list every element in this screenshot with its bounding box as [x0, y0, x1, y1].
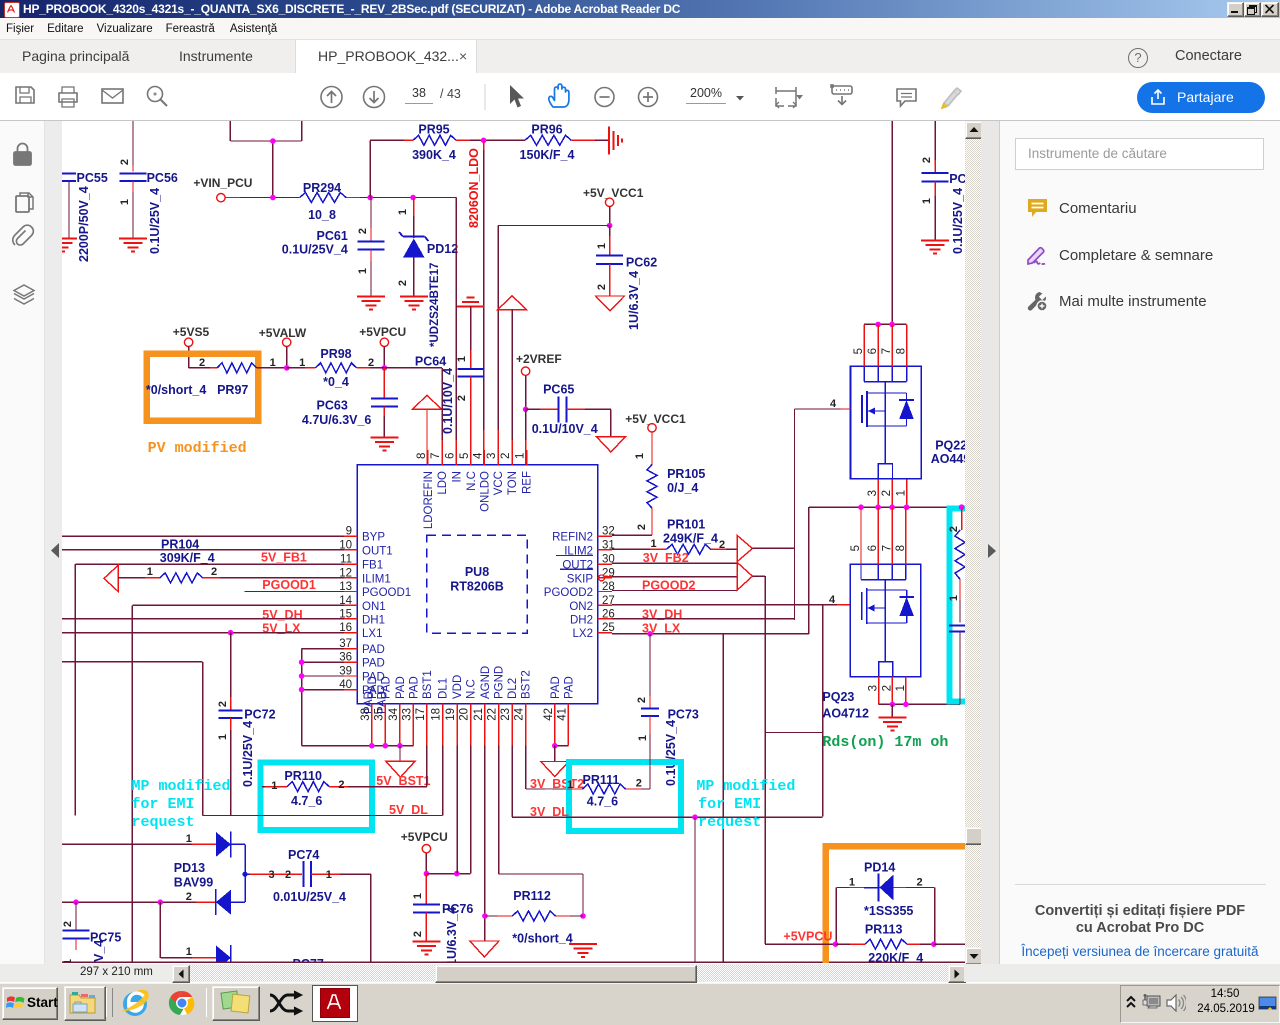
svg-text:3: 3 [868, 685, 880, 691]
wire gate link row [765, 732, 823, 734]
svg-text:1U/6.3V_4: 1U/6.3V_4 [445, 907, 459, 963]
svg-text:1: 1 [217, 734, 229, 740]
svg-text:PAD: PAD [408, 676, 420, 699]
svg-text:150K/F_4: 150K/F_4 [520, 148, 575, 162]
wire DH2 pin26 [612, 618, 795, 620]
svg-text:23: 23 [500, 708, 512, 721]
svg-text:ON2: ON2 [569, 601, 593, 613]
email icon [102, 89, 123, 103]
resistor PR101 [612, 518, 737, 555]
net label 3V_BST2 [530, 777, 584, 791]
svg-text:+2VREF: +2VREF [516, 352, 562, 366]
labels PD13 BAV99 [174, 861, 213, 890]
capacitor in right bracket [949, 626, 965, 705]
net label 5V_LX [262, 622, 301, 636]
svg-text:PAD: PAD [550, 676, 562, 699]
ground (PQ23 source) [878, 704, 906, 730]
svg-text:PC63: PC63 [317, 399, 348, 413]
svg-text:1: 1 [515, 453, 527, 459]
PQ22 bottom pin stubs [878, 479, 907, 507]
svg-text:2: 2 [119, 159, 131, 165]
svg-text:1: 1 [119, 199, 131, 205]
svg-text:1: 1 [637, 735, 649, 741]
svg-text:1: 1 [147, 566, 153, 578]
power +5VALW [259, 326, 307, 371]
svg-text:0.1U/25V_4: 0.1U/25V_4 [282, 243, 348, 257]
resistor PR111 [567, 734, 650, 809]
svg-text:2: 2 [211, 566, 217, 578]
svg-text:+5VPCU: +5VPCU [401, 830, 448, 844]
svg-text:+5VS5: +5VS5 [173, 325, 210, 339]
wire 3V_DL row [512, 746, 823, 963]
ground arrow (PC65) [596, 437, 625, 452]
svg-text:PAD: PAD [395, 676, 407, 699]
power arrow pin 8 [413, 395, 442, 465]
svg-text:10_8: 10_8 [308, 208, 336, 222]
ground (PC55) [49, 239, 77, 252]
diode PD13-A [216, 831, 248, 902]
taskbar [0, 983, 1280, 1025]
svg-text:AGND: AGND [480, 666, 492, 699]
Comentariu row [1027, 198, 1048, 219]
net label 3V_DH [642, 608, 682, 622]
page up icon [321, 87, 342, 108]
svg-text:PR101: PR101 [667, 518, 705, 532]
svg-text:6: 6 [867, 348, 879, 354]
svg-text:request: request [698, 814, 761, 831]
wire pins 42 41 jog [552, 743, 568, 762]
PU8 right pin names [544, 532, 594, 641]
svg-text:35: 35 [373, 708, 385, 721]
svg-text:PD13: PD13 [174, 861, 205, 875]
resistor PR95 [370, 123, 456, 198]
svg-text:FB1: FB1 [362, 560, 383, 572]
transistor PQ22 AO4494 [851, 366, 971, 478]
ground (PD12) [400, 297, 428, 310]
wire VCC net [498, 226, 609, 466]
net arrow PR104 [104, 565, 118, 591]
capacitor PC56 [119, 121, 178, 254]
resistor PR112 [485, 889, 583, 946]
svg-text:PR97: PR97 [217, 383, 248, 397]
status bar + horizontal scrollbar [0, 964, 1280, 982]
svg-text:249K/F_4: 249K/F_4 [663, 532, 718, 546]
vertical scrollbar [965, 121, 981, 964]
svg-text:2: 2 [397, 280, 409, 286]
capacitor PC55 [62, 171, 108, 262]
wire BYP pin9 [62, 535, 344, 537]
title bar [0, 0, 1280, 18]
svg-text:2: 2 [357, 228, 369, 234]
svg-text:+VIN_PCU: +VIN_PCU [193, 176, 252, 190]
svg-text:PC55: PC55 [77, 171, 108, 185]
svg-text:42: 42 [543, 708, 555, 721]
annotation box PV modified [147, 354, 259, 421]
annotation box EMI request 2 [569, 762, 681, 831]
svg-text:PR111: PR111 [583, 773, 620, 787]
capacitor PC63 [302, 368, 398, 437]
ground arrow (AGND) [470, 941, 499, 957]
svg-text:BST2: BST2 [521, 670, 533, 699]
svg-text:0.1U/10V_4: 0.1U/10V_4 [441, 368, 455, 434]
svg-text:2: 2 [62, 921, 74, 927]
svg-text:2200P/50V_4: 2200P/50V_4 [77, 186, 91, 262]
svg-text:0.01U/25V_4: 0.01U/25V_4 [273, 890, 346, 904]
PQ23 top pin numbers [850, 545, 907, 551]
svg-text:PD14: PD14 [864, 861, 895, 875]
svg-text:+5V_VCC1: +5V_VCC1 [583, 186, 644, 200]
net PGOOD2 [612, 579, 737, 593]
svg-text:0.1U/25V_4: 0.1U/25V_4 [664, 720, 678, 786]
capacitor PC75 [62, 902, 121, 965]
PQ22 top bus [864, 322, 906, 328]
net label 5V_DL [389, 803, 428, 817]
svg-text:21: 21 [473, 708, 485, 721]
svg-text:PAD: PAD [362, 658, 385, 670]
svg-text:3: 3 [269, 869, 275, 881]
svg-text:BAV99: BAV99 [174, 876, 213, 890]
annotation box right bracket [950, 508, 976, 701]
svg-text:PC74: PC74 [288, 848, 319, 862]
svg-text:2: 2 [636, 697, 648, 703]
capacitor PC76 [412, 874, 473, 966]
Partajare button [1137, 82, 1265, 113]
svg-text:8206ON_LDO: 8206ON_LDO [467, 148, 481, 228]
svg-text:PQ22: PQ22 [935, 439, 965, 453]
svg-text:BYP: BYP [362, 532, 385, 544]
resistor PR110 [262, 746, 427, 808]
svg-text:V_4: V_4 [92, 940, 106, 962]
net label 3V_DL [530, 805, 569, 819]
svg-text:17: 17 [415, 708, 427, 721]
wire top staple [230, 121, 301, 198]
PU8 bottom pin numbers [360, 707, 569, 720]
svg-text:PAD: PAD [563, 676, 575, 699]
svg-text:request: request [132, 814, 195, 831]
wire triangle1 apex to PQ22 gate column [752, 409, 794, 620]
select cursor [510, 85, 524, 108]
capacitor PC61 [282, 198, 385, 297]
svg-text:38: 38 [360, 708, 372, 721]
svg-text:1: 1 [921, 198, 933, 204]
svg-text:PU8: PU8 [465, 565, 489, 579]
svg-text:8: 8 [416, 453, 428, 459]
svg-text:PAD: PAD [380, 676, 392, 699]
search icon [148, 87, 168, 107]
IC PU8 RT8206B body [357, 465, 597, 704]
svg-text:*0/short_4: *0/short_4 [512, 932, 572, 946]
svg-text:34: 34 [388, 707, 400, 720]
wire left net y662 [62, 662, 203, 816]
svg-text:N.C: N.C [466, 679, 478, 699]
svg-text:4.7_6: 4.7_6 [291, 794, 322, 808]
svg-text:1U/6.3V_4: 1U/6.3V_4 [627, 271, 641, 330]
svg-text:3: 3 [867, 490, 879, 496]
start button [2, 987, 58, 1020]
svg-text:PC73: PC73 [668, 708, 699, 722]
svg-text:5: 5 [850, 545, 862, 551]
svg-text:2: 2 [338, 779, 344, 791]
junction node PR95/PC61 [367, 195, 416, 201]
svg-text:PR112: PR112 [513, 889, 551, 903]
separator [484, 84, 486, 110]
diode PD14 [836, 861, 934, 945]
net label 5V_DH [262, 608, 302, 622]
wire AGND pin21 [482, 746, 488, 941]
wire 5V_DL [203, 746, 443, 816]
svg-text:PR95: PR95 [418, 123, 449, 137]
svg-text:1: 1 [357, 268, 369, 274]
svg-text:41: 41 [556, 708, 568, 721]
svg-text:Rds(on) 17m oh: Rds(on) 17m oh [822, 734, 948, 751]
wire OUT2 pin30 [612, 562, 737, 564]
svg-text:8: 8 [896, 348, 908, 354]
svg-text:*UDZS24BTE17: *UDZS24BTE17 [429, 263, 441, 347]
svg-text:PC72: PC72 [244, 708, 275, 722]
wire PQ23 aux column [722, 634, 724, 963]
ground (PR96, rotated) [609, 126, 622, 154]
svg-text:*0_4: *0_4 [323, 375, 349, 389]
net label 3V_FB2 [643, 551, 689, 565]
capacitor PC64 [441, 298, 484, 466]
svg-text:PD12: PD12 [427, 242, 458, 256]
svg-text:REFIN2: REFIN2 [552, 532, 593, 544]
resistor PR105 [620, 465, 705, 536]
wire diode row 3 [160, 902, 216, 958]
svg-text:19: 19 [445, 708, 457, 721]
svg-text:+5V_VCC1: +5V_VCC1 [625, 412, 686, 426]
Mai multe instrumente row [1026, 290, 1049, 312]
svg-text:5: 5 [853, 348, 865, 354]
svg-text:*1SS355: *1SS355 [864, 904, 913, 918]
annotation box PD14 (orange) [826, 846, 966, 965]
svg-text:PGND: PGND [494, 666, 506, 699]
PQ23 top pin stubs [861, 507, 906, 564]
svg-text:3: 3 [486, 453, 498, 459]
resistor PR96 [520, 123, 609, 163]
svg-text:2: 2 [596, 284, 608, 290]
svg-text:PR98: PR98 [320, 347, 351, 361]
svg-text:8: 8 [895, 545, 907, 551]
resistor PR294 [300, 181, 457, 222]
svg-text:DH1: DH1 [362, 614, 385, 626]
resistor in right bracket [948, 504, 965, 622]
svg-text:PGOOD1: PGOOD1 [362, 587, 411, 599]
svg-text:2: 2 [881, 490, 893, 496]
svg-text:220K/F_4: 220K/F_4 [868, 951, 923, 963]
notes icon [212, 986, 260, 1021]
svg-text:1: 1 [270, 357, 276, 369]
svg-text:LX2: LX2 [573, 628, 593, 640]
print icon [59, 87, 77, 107]
PQ22 gate lead [795, 398, 851, 410]
svg-text:309K/F_4: 309K/F_4 [160, 551, 215, 565]
svg-text:20: 20 [459, 708, 471, 721]
wire LX1 pin16 [62, 630, 344, 636]
text Rds(on) annotation [822, 734, 948, 751]
wire pin 6 [455, 198, 457, 466]
wire VDD NC row [426, 746, 470, 877]
svg-text:PGOOD1: PGOOD1 [262, 578, 316, 592]
svg-text:7: 7 [430, 453, 442, 459]
transistor PQ23 AO4712 [822, 564, 921, 720]
PU8 right pin numbers [602, 526, 615, 635]
svg-text:0.1U/10V_4: 0.1U/10V_4 [532, 422, 598, 436]
svg-text:2: 2 [500, 453, 512, 459]
resistor PR98 [287, 347, 374, 389]
svg-text:4.7U/6.3V_6: 4.7U/6.3V_6 [302, 413, 372, 427]
source bus y507 [809, 504, 964, 510]
promo [1015, 884, 1266, 885]
wire PAD row bottom [302, 743, 414, 762]
svg-text:DL1: DL1 [438, 678, 450, 699]
wire diode row 1 [62, 833, 216, 845]
svg-text:VCC: VCC [493, 471, 505, 495]
svg-text:1: 1 [412, 893, 424, 899]
document area backgrounds [0, 121, 45, 964]
svg-text:SKIP: SKIP [567, 573, 594, 585]
capacitor PC72 [217, 633, 276, 816]
svg-text:1: 1 [596, 243, 608, 249]
PU8 left pin numbers [339, 526, 352, 691]
svg-text:+5VPCU: +5VPCU [783, 930, 832, 944]
Chrome icon [164, 988, 200, 1018]
svg-text:1: 1 [849, 877, 855, 889]
right tools panel [1000, 121, 1280, 964]
svg-text:AO449: AO449 [931, 452, 965, 466]
svg-text:PC64: PC64 [415, 355, 446, 369]
svg-text:1: 1 [948, 595, 960, 601]
svg-text:5V_DH: 5V_DH [262, 608, 302, 622]
svg-text:+5VPCU: +5VPCU [359, 325, 406, 339]
resistor PR104 [118, 538, 344, 583]
svg-text:TON: TON [507, 471, 519, 495]
power +5V_VCC1 right [625, 412, 686, 465]
system tray [1120, 985, 1280, 1023]
svg-text:PV modified: PV modified [148, 440, 247, 457]
PQ22 bottom pin numbers [867, 490, 908, 496]
svg-text:PR96: PR96 [531, 123, 562, 137]
svg-text:OUT1: OUT1 [362, 545, 393, 557]
adobe reader icon (active) [312, 985, 358, 1022]
svg-text:7: 7 [881, 348, 893, 354]
svg-text:ILIM1: ILIM1 [362, 573, 391, 585]
svg-text:PAD: PAD [367, 676, 379, 699]
tab bar [0, 40, 1280, 73]
svg-text:PR104: PR104 [161, 538, 199, 552]
svg-text:0.1U/25V_4: 0.1U/25V_4 [148, 188, 162, 254]
node +VIN_PCU [193, 176, 252, 202]
svg-text:LX1: LX1 [362, 628, 382, 640]
zoom in icon [639, 88, 658, 107]
wire BST2 pin24 to PR111 [526, 746, 567, 789]
svg-text:DL2: DL2 [507, 678, 519, 699]
node 8206ON_LDO [456, 138, 525, 229]
wire +5VPCU to PC64 col [370, 355, 446, 410]
svg-text:PC56: PC56 [147, 171, 178, 185]
svg-text:ONLDO: ONLDO [479, 471, 491, 512]
ground (PC56) [119, 239, 147, 252]
svg-text:ON1: ON1 [362, 601, 386, 613]
svg-text:18: 18 [431, 708, 443, 721]
svg-text:5V_FB1: 5V_FB1 [261, 551, 307, 565]
previous page chevron [49, 542, 61, 559]
ground (PR112) [569, 944, 597, 957]
svg-text:0/J_4: 0/J_4 [667, 481, 698, 495]
svg-text:1: 1 [186, 946, 192, 958]
diode PD13-C [216, 945, 231, 971]
svg-text:4: 4 [829, 594, 836, 606]
net label 5V_FB1 [261, 551, 307, 565]
PU8 top pin names [423, 471, 534, 529]
capacitor PC65 [526, 383, 611, 437]
svg-text:4: 4 [830, 398, 837, 410]
svg-text:1: 1 [651, 538, 657, 550]
sheet border bottom [62, 961, 965, 963]
svg-text:4.7_6: 4.7_6 [587, 795, 618, 809]
wire PQ22 drain feed [891, 121, 893, 324]
resistor PR97 [146, 363, 287, 397]
svg-text:DH2: DH2 [570, 614, 593, 626]
svg-text:MP modified: MP modified [132, 778, 231, 795]
svg-text:+5VALW: +5VALW [259, 326, 307, 340]
IE icon [118, 988, 154, 1018]
wire ON2 to PQ23 gate [612, 594, 850, 817]
menu bar [0, 18, 1280, 40]
wire FB1 pin11 [75, 564, 344, 815]
PQ22 top pin stubs [864, 324, 906, 366]
wire triangle2 apex column [752, 576, 765, 944]
wire LX2 pin25 [612, 507, 809, 636]
svg-text:1: 1 [326, 869, 332, 881]
svg-text:1: 1 [186, 833, 192, 845]
wire PAD bus pins 37 36 39 40 [299, 649, 344, 746]
svg-text:2: 2 [719, 539, 725, 551]
ground arrow (pins 42 41) [541, 762, 569, 777]
svg-text:1: 1 [895, 685, 907, 691]
wire OUT1 pin10 [62, 549, 344, 551]
toolbar [0, 73, 1280, 121]
svg-text:PR113: PR113 [865, 923, 903, 937]
svg-text:5: 5 [459, 453, 471, 459]
diode PD13-B [216, 889, 231, 915]
svg-text:22: 22 [487, 708, 499, 721]
capacitor PC73 [636, 634, 699, 789]
svg-text:PGOOD2: PGOOD2 [544, 587, 593, 599]
svg-text:VDD: VDD [452, 675, 464, 699]
PU8 left pin names [362, 532, 411, 714]
svg-text:0.1U/25V_4: 0.1U/25V_4 [951, 188, 965, 254]
svg-text:24: 24 [514, 707, 526, 720]
wire PGND pin22 [499, 746, 586, 919]
ground (PC61) [357, 297, 385, 310]
capacitor PC59 top right [921, 121, 967, 254]
ground (PC59) [921, 241, 949, 254]
svg-text:1: 1 [896, 490, 908, 496]
svg-text:7: 7 [881, 545, 893, 551]
svg-text:2: 2 [636, 524, 648, 530]
zoom out icon [595, 88, 614, 107]
net label 3V_LX [642, 621, 681, 635]
page fit icon [776, 87, 803, 108]
svg-text:PR110: PR110 [284, 769, 322, 783]
highlighter icon [942, 88, 961, 108]
wire +VIN_PCU row [240, 195, 300, 201]
svg-text:33: 33 [401, 708, 413, 721]
svg-text:RT8206B: RT8206B [450, 580, 504, 594]
PQ22 top pin numbers [853, 348, 907, 354]
svg-text:MP modified: MP modified [696, 778, 795, 795]
